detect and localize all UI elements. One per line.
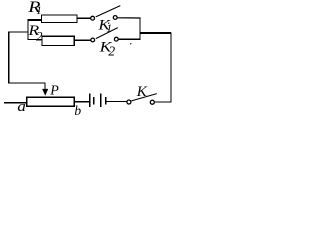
wire: a terminal stub — [4, 102, 27, 104]
svg-text:2: 2 — [36, 28, 43, 43]
svg-text:K: K — [136, 84, 148, 100]
stray dot right of K2 — [130, 43, 131, 44]
switch K2 left contact — [91, 38, 95, 42]
svg-text:a: a — [17, 99, 26, 115]
wire: K1 to right junction — [117, 17, 140, 19]
switch K left contact — [127, 100, 131, 104]
wire: K2 to right junction — [118, 38, 140, 40]
switch K1 right contact — [113, 16, 117, 20]
rheostat slider arrowhead — [42, 89, 48, 96]
battery cell plate long 1 — [89, 94, 91, 108]
svg-text:P: P — [49, 84, 59, 99]
rheostat slider arrow shaft — [44, 83, 46, 91]
svg-text:2: 2 — [108, 44, 115, 59]
rheostat body P — [27, 97, 74, 106]
node: right junction vertical bar — [139, 18, 141, 40]
resistor R1 — [42, 15, 78, 22]
switch K2 right contact — [114, 37, 118, 41]
battery cell plate short 1 — [93, 97, 95, 105]
stray dot below K1 — [108, 23, 109, 24]
wire: R1 to K1 — [77, 17, 90, 19]
wire: into R2 left — [27, 38, 42, 40]
wire: right vertical main — [170, 32, 172, 102]
node: left junction vertical bar — [27, 19, 29, 40]
wire: bottom left horizontal to slider — [8, 82, 46, 84]
switch K blade — [131, 94, 156, 101]
battery cell plate long 2 — [100, 94, 102, 108]
wire: into R1 left — [27, 19, 41, 21]
switch K1 blade — [96, 6, 121, 17]
wire: battery to switch K — [106, 101, 127, 103]
wire: left vertical main — [8, 32, 10, 83]
svg-text:b: b — [74, 103, 81, 118]
wire: left tap horizontal — [8, 31, 28, 33]
wire: R2 to K2 — [74, 39, 90, 41]
switch K2 blade — [96, 28, 118, 39]
wire: bottom right to switch K — [154, 101, 171, 103]
svg-text:1: 1 — [36, 5, 42, 17]
switch K1 left contact — [91, 16, 95, 20]
battery cell plate short 2 — [105, 97, 107, 105]
wire: rheostat b terminal to battery — [74, 101, 90, 103]
wire: right tap horizontal — [140, 32, 171, 34]
switch K right contact — [150, 100, 154, 104]
resistor R2 — [42, 36, 74, 45]
